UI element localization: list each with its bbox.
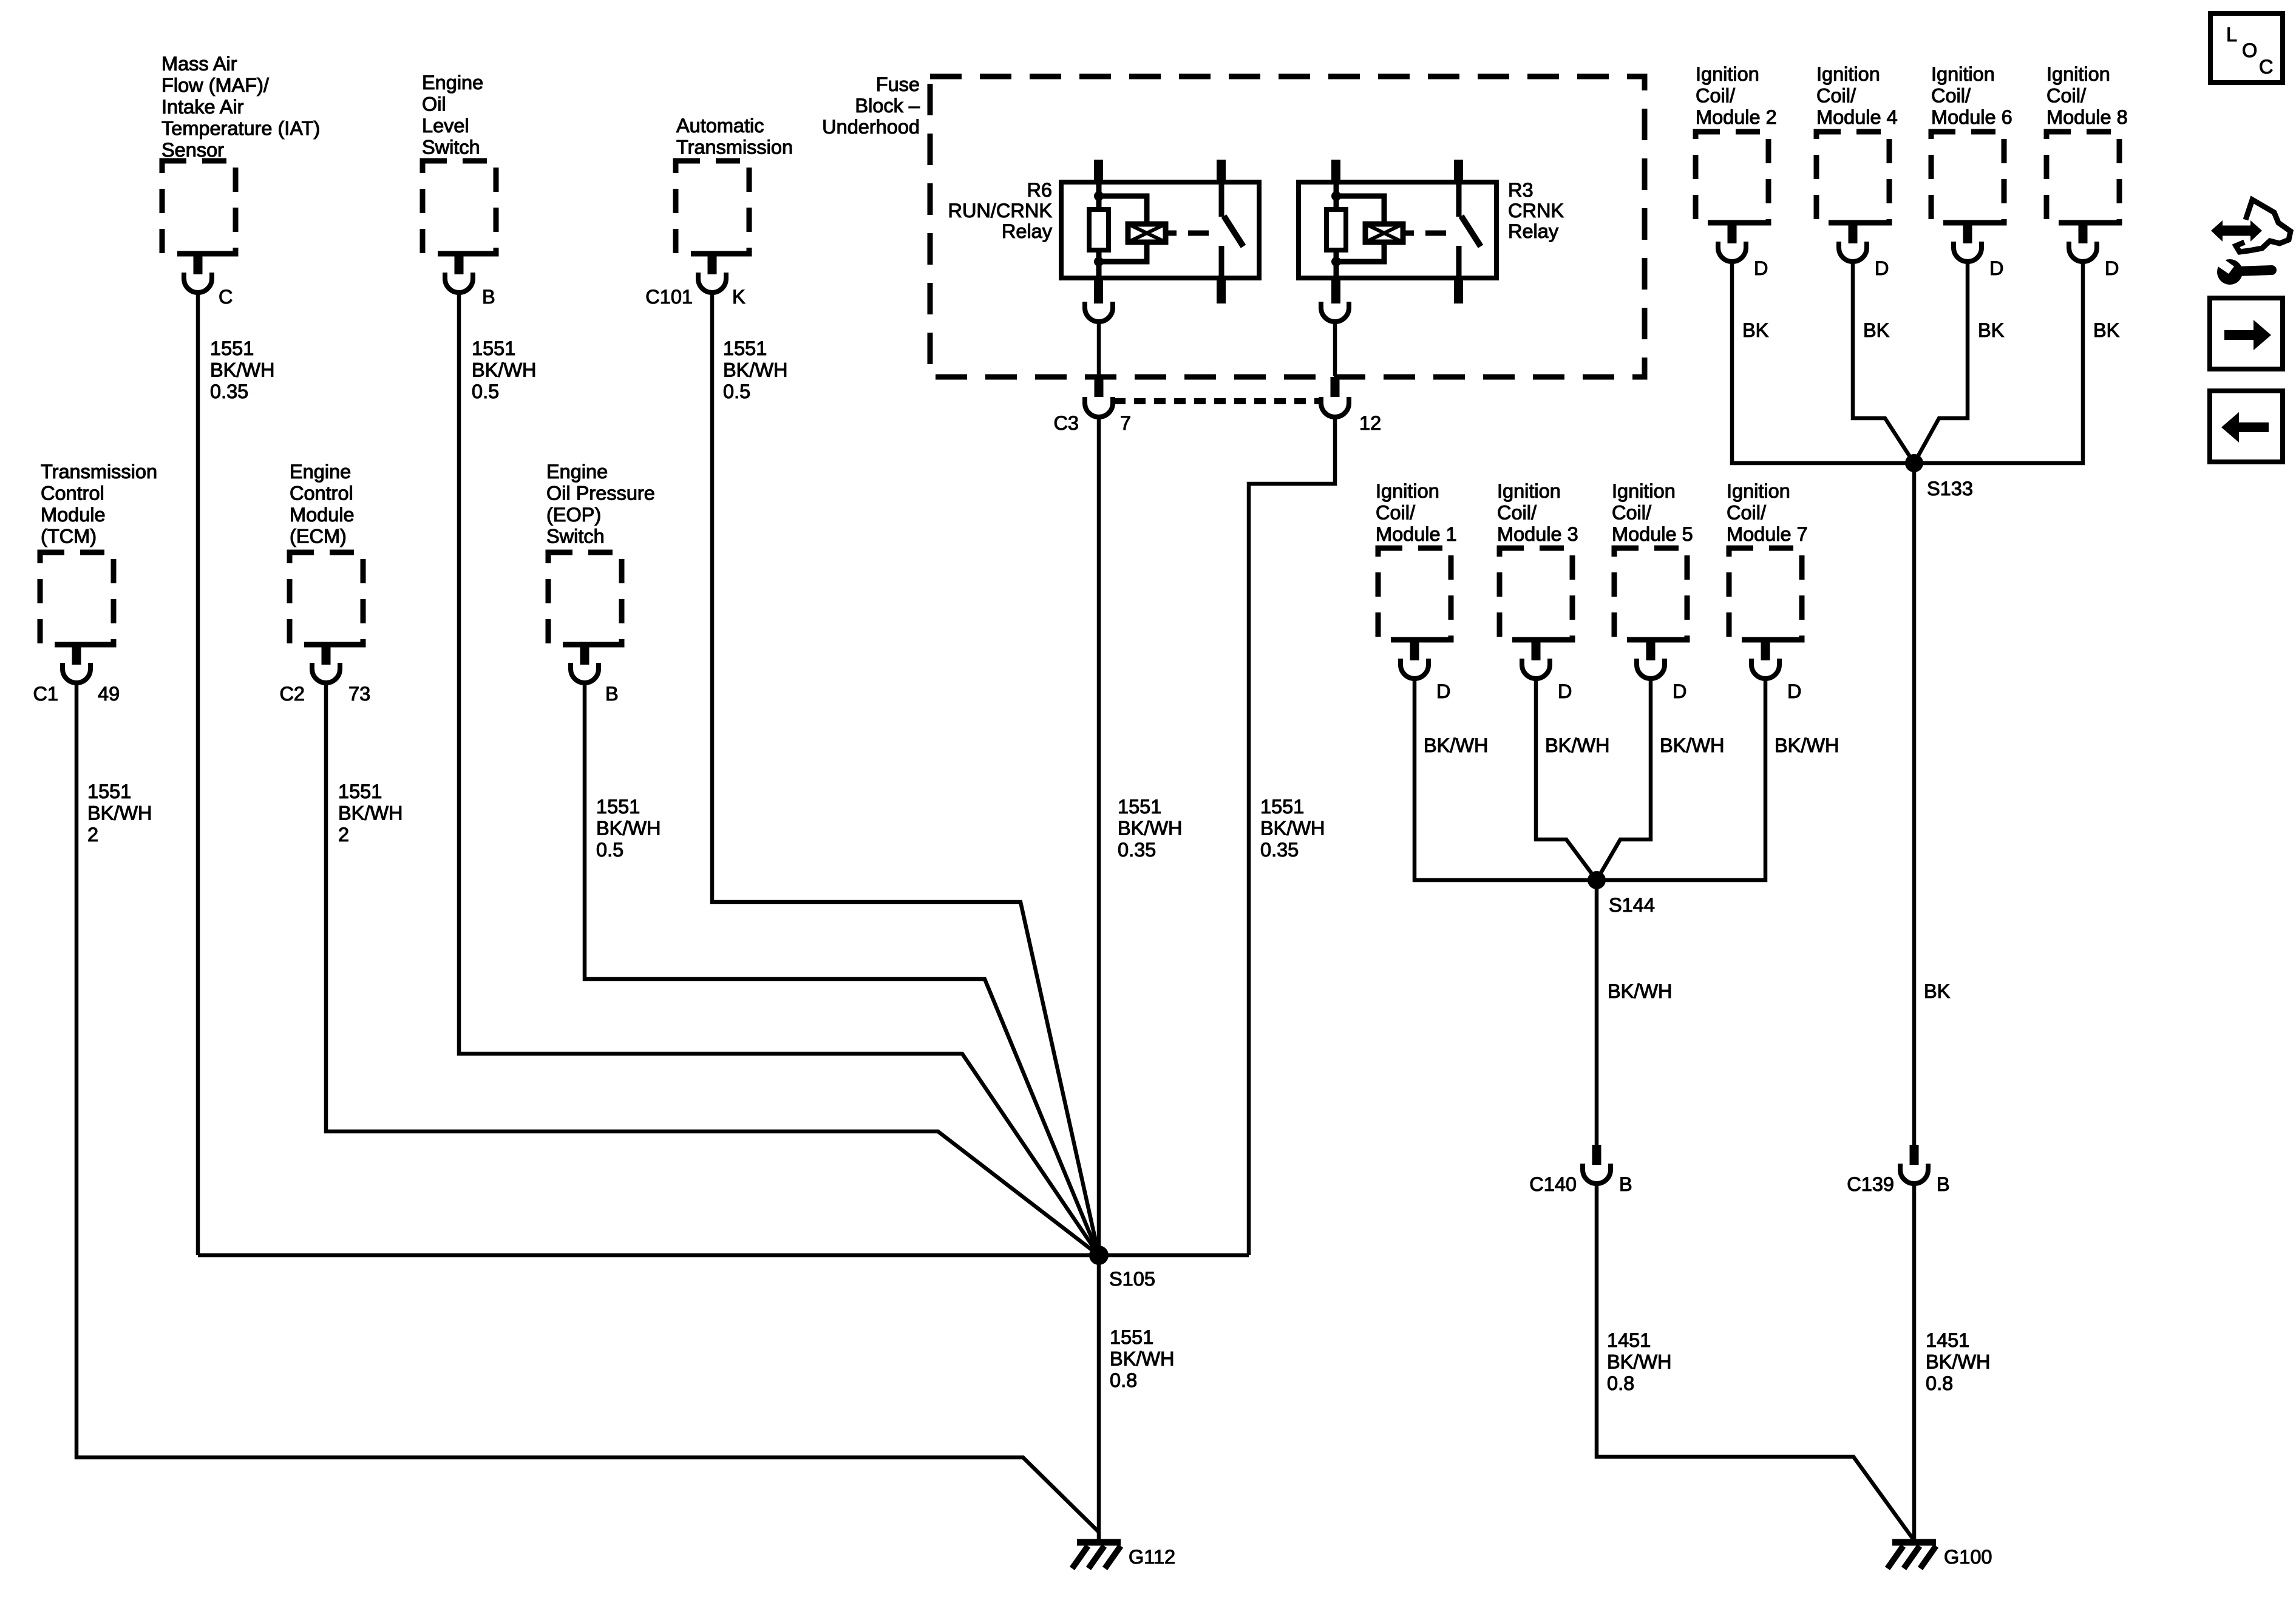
svg-text:D: D	[1754, 257, 1768, 279]
svg-text:K: K	[732, 286, 746, 308]
connector pin stub C139 pin B	[1910, 1145, 1919, 1165]
svg-text:Engine: Engine	[422, 72, 483, 93]
svg-text:Module 8: Module 8	[2046, 106, 2128, 128]
wire BK/WH coil 7 to S144	[1597, 679, 1765, 880]
connector cup EOL B	[445, 273, 473, 293]
svg-text:BK: BK	[1863, 319, 1890, 341]
relay R6 RUN/CRNK actuating link	[1166, 231, 1209, 236]
svg-text:Underhood: Underhood	[822, 116, 920, 138]
relay R6 RUN/CRNK internal junction top	[1094, 191, 1104, 201]
svg-text:Oil: Oil	[422, 93, 446, 115]
svg-text:B: B	[1937, 1173, 1950, 1195]
wire BK/WH coil 1 to S144	[1415, 679, 1597, 880]
backward arrow legend box	[2210, 391, 2283, 462]
wire 1551 BK/WH 0.5 from oil level switch to S105	[459, 293, 1099, 1255]
connector pin stub coil 4 pin D	[1849, 223, 1858, 243]
relay R6 RUN/CRNK box	[1061, 182, 1259, 278]
svg-text:0.35: 0.35	[1260, 839, 1299, 861]
wire 1551 BK/WH 2 from ECM to S105	[326, 683, 1099, 1255]
connector pin stub C3 pin 12	[1331, 377, 1340, 397]
svg-text:1551: 1551	[338, 781, 382, 802]
svg-text:Relay: Relay	[1508, 220, 1559, 242]
svg-text:0.5: 0.5	[723, 381, 750, 402]
svg-text:BK/WH: BK/WH	[596, 818, 661, 839]
svg-text:0.8: 0.8	[1607, 1372, 1634, 1394]
Engine Control Module label	[290, 461, 355, 547]
fuse block underhood dashed enclosure	[930, 76, 1645, 377]
connector pin stub MAF pin C	[194, 254, 203, 274]
wire bus into S105	[198, 1253, 1249, 1258]
svg-text:Transmission: Transmission	[676, 137, 793, 158]
svg-text:0.35: 0.35	[1118, 839, 1156, 861]
connector cup TCM C1 49	[63, 663, 90, 683]
svg-text:Module 2: Module 2	[1696, 106, 1777, 128]
relay R6 RUN/CRNK pin top-left	[1094, 160, 1103, 184]
connector pin stub coil 6 pin D	[1963, 223, 1972, 243]
connector cup coil 5 D	[1637, 659, 1665, 679]
coil 2 connector corner	[1728, 220, 1761, 226]
svg-text:L: L	[2226, 24, 2237, 46]
connector cup C3 cavity 12	[1321, 397, 1349, 417]
connector C3 dotted tie line	[1114, 398, 1319, 404]
svg-text:BK/WH: BK/WH	[338, 802, 403, 824]
LOC legend box	[2210, 13, 2283, 83]
svg-text:2: 2	[338, 824, 349, 846]
relay R3 CRNK pin top-left	[1331, 160, 1340, 184]
svg-text:D: D	[2105, 257, 2119, 279]
relay R6 RUN/CRNK pin top-right	[1217, 160, 1226, 184]
svg-text:BK/WH: BK/WH	[1545, 734, 1610, 756]
svg-text:Coil/: Coil/	[1727, 502, 1767, 524]
svg-text:0.8: 0.8	[1926, 1372, 1953, 1394]
svg-text:D: D	[1558, 680, 1572, 702]
svg-text:Ignition: Ignition	[1816, 63, 1880, 85]
svg-text:R6: R6	[1027, 179, 1052, 201]
svg-text:Coil/: Coil/	[1497, 502, 1537, 524]
svg-text:(EOP): (EOP)	[546, 504, 601, 526]
Ignition Coil/Module 4 label	[1816, 63, 1898, 128]
Ignition Coil/Module 3 box	[1500, 548, 1572, 640]
relay R6 RUN/CRNK internal junction bottom	[1094, 257, 1104, 266]
svg-text:(TCM): (TCM)	[41, 526, 97, 547]
wire label 1451 BK/WH 0.8	[1607, 1329, 1672, 1394]
svg-text:BK/WH: BK/WH	[1775, 734, 1839, 756]
wire R6 relay output inside fuse block	[1097, 322, 1101, 376]
relay R3 CRNK resistor	[1326, 209, 1346, 250]
svg-text:Module 7: Module 7	[1727, 523, 1808, 545]
svg-text:C139: C139	[1847, 1173, 1894, 1195]
connector cup coil 6 D	[1954, 242, 1982, 262]
svg-text:(ECM): (ECM)	[290, 526, 347, 547]
svg-text:Module 6: Module 6	[1931, 106, 2012, 128]
svg-text:Ignition: Ignition	[2046, 63, 2110, 85]
svg-text:D: D	[1787, 680, 1801, 702]
svg-text:D: D	[1875, 257, 1889, 279]
svg-text:RUN/CRNK: RUN/CRNK	[948, 200, 1052, 222]
Ignition Coil/Module 2 box	[1696, 132, 1768, 223]
svg-text:Module: Module	[41, 504, 106, 526]
svg-text:7: 7	[1120, 412, 1131, 434]
svg-text:BK/WH: BK/WH	[1260, 818, 1325, 839]
wire 1551 BK/WH 0.35 from C3 pin 12 to S105	[1249, 417, 1335, 1255]
Ignition Coil/Module 1 label	[1376, 480, 1457, 545]
svg-text:Flow (MAF)/: Flow (MAF)/	[161, 75, 270, 97]
connector cup AT C101 K	[698, 273, 726, 293]
svg-text:0.8: 0.8	[1110, 1369, 1137, 1391]
connector pin stub C140 pin B	[1592, 1145, 1601, 1165]
coil 1 connector corner	[1410, 637, 1444, 643]
connector cup EOP B	[571, 663, 599, 683]
svg-text:BK/WH: BK/WH	[1118, 818, 1183, 839]
svg-text:1551: 1551	[1118, 796, 1161, 818]
Ignition Coil/Module 2 label	[1696, 63, 1777, 128]
svg-text:S133: S133	[1927, 478, 1973, 500]
svg-text:Coil/: Coil/	[1612, 502, 1652, 524]
relay R3 CRNK pin top-right	[1454, 160, 1463, 184]
MAF/IAT sensor label	[161, 53, 320, 161]
wire label 1551 BK/WH 0.5	[723, 337, 788, 402]
relay R6 RUN/CRNK switch blade	[1224, 216, 1243, 246]
relay R3 CRNK coil	[1365, 224, 1403, 242]
relay R6 RUN/CRNK resistor	[1089, 209, 1109, 250]
relay R6 RUN/CRNK switch contact top	[1219, 182, 1224, 217]
svg-text:S144: S144	[1609, 894, 1655, 916]
connector cup coil 4 D	[1839, 242, 1867, 262]
svg-text:D: D	[1673, 680, 1686, 702]
Engine Control Module box	[290, 552, 363, 645]
svg-text:1451: 1451	[1607, 1329, 1651, 1351]
wire label 1551 BK/WH 0.8	[1110, 1326, 1175, 1391]
connector pin stub coil 1 pin D	[1410, 640, 1419, 660]
Fuse Block - Underhood label	[822, 73, 920, 138]
MAF/IAT sensor box	[162, 161, 236, 254]
svg-text:D: D	[1989, 257, 2003, 279]
wire label 1551 BK/WH 0.5	[472, 337, 537, 402]
connector pin stub coil 2 pin D	[1728, 223, 1737, 243]
relay R3 CRNK switch contact bottom	[1456, 246, 1462, 278]
connector cup fuse block internal below R6	[1085, 302, 1113, 322]
wire 1551 BK/WH 0.8 from S105 to G112	[1097, 1255, 1101, 1539]
Transmission Control Module label	[41, 461, 157, 547]
ECM connector corner	[322, 642, 355, 648]
svg-text:G112: G112	[1129, 1546, 1175, 1568]
svg-text:BK/WH: BK/WH	[723, 359, 788, 381]
coil 3 connector corner	[1532, 637, 1565, 643]
svg-text:Sensor: Sensor	[161, 139, 224, 161]
svg-text:Ignition: Ignition	[1376, 480, 1439, 502]
svg-text:Level: Level	[422, 115, 469, 137]
Ignition Coil/Module 1 box	[1378, 548, 1451, 640]
connector pin stub TCM pin 49	[72, 645, 81, 665]
wire label 1551 BK/WH 0.35	[1260, 796, 1325, 861]
wire 1451 BK/WH 0.8 from C139 to G100	[1912, 1184, 1917, 1539]
wire label 1551 BK/WH 0.35	[1118, 796, 1183, 861]
svg-text:C1: C1	[33, 683, 58, 705]
ground G112	[1072, 1542, 1121, 1568]
svg-text:Switch: Switch	[422, 137, 480, 158]
relay R3 CRNK actuating link	[1403, 231, 1446, 236]
relay R3 CRNK switch contact top	[1456, 182, 1462, 217]
coil 7 connector corner	[1761, 637, 1795, 643]
harness routing tool icon	[2211, 200, 2291, 285]
connector pin stub ECM pin 73	[322, 645, 331, 665]
wire 1551 BK/WH 0.5 from EOP switch to S105	[585, 683, 1099, 1255]
svg-text:BK: BK	[1978, 319, 2005, 341]
svg-text:Automatic: Automatic	[676, 115, 764, 137]
relay R6 RUN/CRNK pin bottom-right	[1217, 277, 1226, 303]
relay R6 RUN/CRNK coil feed line	[1096, 182, 1102, 278]
svg-text:BK/WH: BK/WH	[1424, 734, 1489, 756]
connector cup coil 2 D	[1718, 242, 1746, 262]
wire BK/WH coil 3 to S144	[1536, 679, 1597, 880]
connector pin stub coil 5 pin D	[1646, 640, 1656, 660]
connector cup ECM C2 73	[312, 663, 340, 683]
svg-text:Ignition: Ignition	[1931, 63, 1995, 85]
svg-text:Ignition: Ignition	[1696, 63, 1759, 85]
connector cup fuse block internal below R3	[1321, 302, 1349, 322]
svg-text:Coil/: Coil/	[1931, 85, 1971, 107]
Ignition Coil/Module 8 box	[2046, 132, 2119, 223]
wire BK/WH from S144 to C140	[1595, 880, 1599, 1145]
relay R3 CRNK box	[1299, 182, 1496, 278]
svg-text:O: O	[2242, 39, 2257, 61]
connector cup C3 cavity 7	[1085, 397, 1113, 417]
relay R6 label	[948, 179, 1052, 242]
svg-text:Engine: Engine	[546, 461, 608, 483]
connector pin stub coil 3 pin D	[1532, 640, 1541, 660]
svg-text:1551: 1551	[210, 337, 254, 359]
svg-text:73: 73	[348, 683, 370, 705]
svg-text:Relay: Relay	[1002, 220, 1053, 242]
wire BK coil 4 to S133	[1853, 262, 1914, 463]
Engine Oil Level Switch label	[422, 72, 483, 158]
svg-text:BK/WH: BK/WH	[1607, 1351, 1672, 1373]
wire BK from S133 to C139	[1912, 463, 1917, 1145]
svg-text:R3: R3	[1508, 179, 1533, 201]
connector cup coil 8 D	[2069, 242, 2097, 262]
connector cup C140 B	[1583, 1164, 1611, 1184]
connector pin stub coil 8 pin D	[2079, 223, 2088, 243]
wire 1551 BK/WH 0.5 from automatic transmission to S105	[712, 293, 1099, 1255]
svg-text:C: C	[2259, 56, 2273, 78]
svg-text:Intake Air: Intake Air	[161, 96, 244, 118]
wire 1451 BK/WH 0.8 from C140 to G100	[1597, 1184, 1914, 1541]
svg-text:S105: S105	[1109, 1268, 1155, 1290]
svg-text:BK/WH: BK/WH	[1608, 980, 1673, 1002]
svg-text:Control: Control	[290, 483, 353, 504]
forward arrow legend box	[2210, 298, 2283, 369]
wire BK coil 8 to S133	[1914, 262, 2083, 463]
MAF connector corner	[194, 251, 227, 257]
svg-text:Coil/: Coil/	[1376, 502, 1416, 524]
svg-text:1551: 1551	[596, 796, 640, 818]
wire BK coil 6 to S133	[1914, 262, 1968, 463]
svg-text:G100: G100	[1944, 1546, 1992, 1568]
svg-text:Mass Air: Mass Air	[161, 53, 237, 75]
wire label 1451 BK/WH 0.8	[1926, 1329, 1991, 1394]
relay R3 CRNK pin bottom-left	[1331, 277, 1340, 303]
svg-text:Temperature (IAT): Temperature (IAT)	[161, 118, 320, 140]
relay R6 RUN/CRNK coil branch wire	[1099, 196, 1147, 262]
ground G100	[1887, 1542, 1936, 1568]
connector cup coil 3 D	[1522, 659, 1550, 679]
svg-text:BK: BK	[2093, 319, 2120, 341]
svg-text:1451: 1451	[1926, 1329, 1969, 1351]
Ignition Coil/Module 5 box	[1614, 548, 1687, 640]
coil 8 connector corner	[2079, 220, 2112, 226]
svg-text:Transmission: Transmission	[41, 461, 157, 483]
relay R3 CRNK coil branch wire	[1336, 196, 1384, 262]
wire R3 relay output inside fuse block	[1333, 322, 1337, 376]
svg-text:Module 4: Module 4	[1816, 106, 1898, 128]
relay R3 label	[1508, 179, 1564, 242]
Automatic Transmission box	[676, 161, 749, 254]
svg-text:1551: 1551	[1260, 796, 1304, 818]
EOP connector corner	[580, 642, 614, 648]
svg-text:Module: Module	[290, 504, 355, 526]
relay R6 RUN/CRNK pin bottom-left	[1094, 277, 1103, 303]
coil 4 connector corner	[1849, 220, 1882, 226]
EOL connector corner	[455, 251, 488, 257]
Ignition Coil/Module 6 label	[1931, 63, 2012, 128]
svg-text:Fuse: Fuse	[876, 73, 920, 95]
connector cup coil 1 D	[1401, 659, 1428, 679]
Ignition Coil/Module 6 box	[1931, 132, 2004, 223]
svg-text:1551: 1551	[472, 337, 515, 359]
Ignition Coil/Module 5 label	[1612, 480, 1693, 545]
svg-text:B: B	[605, 683, 619, 705]
Ignition Coil/Module 4 box	[1816, 132, 1889, 223]
svg-text:1551: 1551	[723, 337, 767, 359]
svg-text:0.5: 0.5	[596, 839, 623, 861]
Automatic Transmission label	[676, 115, 793, 158]
svg-text:BK/WH: BK/WH	[1926, 1351, 1991, 1373]
svg-text:B: B	[1619, 1173, 1632, 1195]
wire 1551 BK/WH 0.35 from MAF pin C to S105	[196, 293, 200, 1255]
svg-text:BK/WH: BK/WH	[87, 802, 152, 824]
splice S144	[1588, 871, 1606, 889]
wire BK/WH coil 5 to S144	[1597, 679, 1651, 880]
svg-text:BK/WH: BK/WH	[210, 359, 275, 381]
svg-text:Engine: Engine	[290, 461, 351, 483]
Transmission Control Module box	[40, 552, 114, 645]
svg-text:Module 3: Module 3	[1497, 523, 1578, 545]
Engine Oil Pressure Switch label	[546, 461, 655, 547]
svg-text:Switch: Switch	[546, 526, 605, 547]
TCM connector corner	[72, 642, 106, 648]
wire label 1551 BK/WH 0.5	[596, 796, 661, 861]
Ignition Coil/Module 8 label	[2046, 63, 2128, 128]
svg-text:C101: C101	[645, 286, 693, 308]
svg-text:Coil/: Coil/	[2046, 85, 2087, 107]
Engine Oil Level Switch box	[423, 161, 496, 254]
connector pin stub C3 pin 7	[1095, 377, 1104, 397]
relay R6 RUN/CRNK coil	[1128, 224, 1166, 242]
svg-text:0.35: 0.35	[210, 381, 248, 402]
svg-text:C3: C3	[1053, 412, 1079, 434]
wire 1551 BK/WH 2 from TCM to G112	[76, 683, 1099, 1533]
svg-text:Module 1: Module 1	[1376, 523, 1457, 545]
AT connector corner	[708, 251, 741, 257]
wire label 1551 BK/WH 0.35	[210, 337, 275, 402]
svg-text:49: 49	[98, 683, 120, 705]
svg-text:Ignition: Ignition	[1497, 480, 1561, 502]
Ignition Coil/Module 3 label	[1497, 480, 1578, 545]
relay R3 CRNK switch blade	[1461, 216, 1481, 246]
svg-text:BK: BK	[1742, 319, 1769, 341]
svg-text:2: 2	[87, 824, 98, 846]
wire label 1551 BK/WH 2	[338, 781, 403, 846]
svg-text:Ignition: Ignition	[1727, 480, 1790, 502]
splice S105	[1089, 1246, 1109, 1265]
wire label 1551 BK/WH 2	[87, 781, 152, 846]
coil 6 connector corner	[1963, 220, 1997, 226]
relay R3 CRNK internal junction top	[1331, 191, 1341, 201]
svg-text:C2: C2	[279, 683, 305, 705]
relay R3 CRNK pin bottom-right	[1454, 277, 1463, 303]
splice S133	[1905, 454, 1923, 472]
svg-text:Ignition: Ignition	[1612, 480, 1676, 502]
connector cup coil 7 D	[1751, 659, 1779, 679]
relay R3 CRNK coil feed line	[1334, 182, 1339, 278]
Engine Oil Pressure Switch box	[548, 552, 622, 645]
connector cup C139 B	[1900, 1164, 1928, 1184]
connector pin stub coil 7 pin D	[1761, 640, 1770, 660]
svg-text:Control: Control	[41, 483, 104, 504]
connector pin stub EOP pin B	[580, 645, 589, 665]
relay R3 CRNK internal junction bottom	[1331, 257, 1341, 266]
svg-text:B: B	[482, 286, 495, 308]
svg-text:Block –: Block –	[855, 95, 920, 117]
svg-text:C140: C140	[1529, 1173, 1577, 1195]
svg-text:BK/WH: BK/WH	[1110, 1348, 1175, 1370]
connector cup MAF C	[184, 273, 212, 293]
coil 5 connector corner	[1646, 637, 1680, 643]
svg-text:Coil/: Coil/	[1816, 85, 1856, 107]
svg-text:BK/WH: BK/WH	[472, 359, 537, 381]
Ignition Coil/Module 7 label	[1727, 480, 1808, 545]
svg-text:D: D	[1436, 680, 1450, 702]
svg-text:1551: 1551	[87, 781, 131, 802]
wire BK coil 2 to S133	[1732, 262, 1914, 463]
svg-text:Oil Pressure: Oil Pressure	[546, 483, 655, 504]
connector pin stub EOL pin B	[455, 254, 464, 274]
Ignition Coil/Module 7 box	[1729, 548, 1802, 640]
svg-text:BK/WH: BK/WH	[1660, 734, 1725, 756]
svg-text:BK: BK	[1924, 980, 1951, 1002]
svg-text:12: 12	[1359, 412, 1381, 434]
relay R6 RUN/CRNK switch contact bottom	[1219, 246, 1224, 278]
svg-text:C: C	[219, 286, 233, 308]
svg-text:CRNK: CRNK	[1508, 200, 1564, 222]
svg-text:0.5: 0.5	[472, 381, 499, 402]
svg-text:Module 5: Module 5	[1612, 523, 1693, 545]
wire 1551 BK/WH 0.35 from C3 pin 7 to S105	[1097, 417, 1101, 1255]
connector pin stub AT pin K	[708, 254, 717, 274]
svg-text:Coil/: Coil/	[1696, 85, 1736, 107]
svg-text:1551: 1551	[1110, 1326, 1153, 1348]
